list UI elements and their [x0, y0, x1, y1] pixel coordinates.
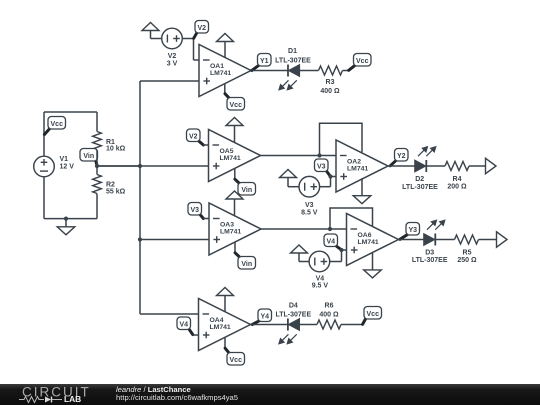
power arrow V2 — [142, 23, 159, 31]
svg-text:V4: V4 — [326, 238, 335, 245]
net flag Vcc R3 — [349, 65, 356, 70]
power arrow V3 — [280, 170, 297, 178]
wire Vin bus — [139, 81, 141, 314]
net flag V4 OA4 — [189, 329, 193, 335]
wire V1 top to R1 top — [43, 112, 45, 156]
svg-text:9.5 V: 9.5 V — [312, 282, 329, 289]
svg-text:R4: R4 — [453, 176, 462, 183]
node ground junction — [64, 217, 68, 221]
op-amp OA4 — [199, 299, 251, 351]
svg-text:V3: V3 — [317, 163, 326, 170]
wire OA1 output — [251, 70, 288, 72]
svg-text:R6: R6 — [325, 303, 334, 310]
svg-text:LM741: LM741 — [358, 239, 379, 246]
op-amp OA3 — [209, 203, 261, 255]
svg-text:Vcc: Vcc — [230, 357, 243, 364]
svg-text:Vin: Vin — [241, 261, 252, 268]
wire OA5 plus input — [97, 165, 209, 167]
diode D1 — [287, 65, 289, 77]
net flag V2 OA5 — [199, 141, 204, 145]
op-amp OA5 — [209, 130, 261, 182]
wire OA4 plus stub — [193, 334, 199, 336]
svg-text:3 V: 3 V — [167, 60, 178, 67]
svg-text:Y4: Y4 — [260, 313, 269, 320]
pointer out Y3 — [497, 232, 508, 247]
net flag Vin OA5 — [234, 169, 236, 180]
op-amp OA1 — [199, 45, 251, 97]
node OA6 plus junction — [339, 248, 343, 252]
svg-text:Vcc: Vcc — [51, 121, 64, 128]
net flag Vcc — [44, 128, 50, 134]
net flag Vin — [96, 160, 98, 166]
svg-text:V3: V3 — [305, 202, 314, 209]
svg-text:Vin: Vin — [241, 187, 252, 194]
svg-text:55 kΩ: 55 kΩ — [106, 188, 126, 195]
ground OA6 — [372, 253, 374, 270]
svg-text:LM741: LM741 — [210, 324, 231, 331]
svg-text:LAB: LAB — [64, 394, 81, 404]
voltage source V1 — [34, 156, 55, 177]
svg-text:Vin: Vin — [83, 153, 94, 160]
svg-text:Vcc: Vcc — [367, 311, 380, 318]
svg-text:Vcc: Vcc — [356, 58, 369, 65]
svg-text:200 Ω: 200 Ω — [447, 184, 467, 191]
svg-text:D1: D1 — [288, 48, 297, 55]
op-amp OA6 — [347, 214, 399, 266]
svg-text:Y1: Y1 — [260, 58, 269, 65]
wire OA6 output — [399, 239, 424, 241]
svg-text:LM741: LM741 — [347, 166, 368, 173]
resistor R2 — [93, 175, 102, 194]
pointer out Y2 — [486, 158, 497, 173]
power arrow V4 — [291, 245, 308, 253]
svg-text:D4: D4 — [289, 303, 298, 310]
power arrow OA4 — [217, 288, 234, 296]
resistor R4 — [445, 162, 469, 171]
wire OA3 output — [261, 228, 347, 230]
node OA6 feedback junction — [328, 227, 332, 231]
wire OA4 minus input — [140, 313, 199, 315]
wire OA2 feedback — [320, 123, 363, 155]
svg-text:D2: D2 — [415, 176, 424, 183]
power arrow OA5 — [226, 118, 243, 126]
svg-text:D3: D3 — [425, 249, 434, 256]
svg-text:Y2: Y2 — [397, 153, 406, 160]
net flag V3 OA2 — [326, 171, 330, 177]
voltage source V2 — [162, 28, 183, 49]
svg-text:10 kΩ: 10 kΩ — [106, 146, 126, 153]
resistor R6 — [317, 320, 341, 329]
node OA2 feedback junction — [317, 153, 321, 157]
net flag V4 OA6 — [336, 246, 341, 250]
node OA2 plus junction — [328, 174, 332, 178]
net flag Y2 — [390, 160, 396, 166]
wire V2 to OA1 minus — [182, 38, 193, 40]
resistor R3 — [319, 66, 343, 75]
power arrow OA1 — [217, 34, 234, 42]
ground OA2 — [361, 178, 363, 196]
wire OA2 output — [388, 165, 415, 167]
svg-text:R3: R3 — [326, 79, 335, 86]
svg-text:400 Ω: 400 Ω — [320, 88, 340, 95]
svg-text:V3: V3 — [190, 207, 199, 214]
op-amp OA2 — [336, 140, 388, 192]
wire D4 to R6 — [299, 324, 317, 326]
wire D3 to R5 — [435, 239, 454, 241]
svg-text:V2: V2 — [168, 53, 177, 60]
net flag Vin OA3 — [234, 242, 236, 253]
svg-text:V2: V2 — [197, 25, 206, 32]
net flag Vcc OA1 — [224, 84, 226, 94]
net flag V3 OA3 — [200, 214, 204, 218]
ground — [65, 219, 67, 227]
svg-text:8.5 V: 8.5 V — [301, 209, 318, 216]
net flag Y4 — [252, 321, 259, 325]
svg-text:LTL-307EE: LTL-307EE — [275, 312, 311, 319]
diode D4 — [287, 319, 289, 331]
wire OA6 plus input — [342, 249, 347, 251]
resistor R1 — [93, 132, 102, 151]
wire R5 to out — [479, 239, 497, 241]
svg-text:Vcc: Vcc — [230, 102, 243, 109]
svg-text:LM741: LM741 — [210, 70, 231, 77]
power arrow OA3 — [226, 191, 243, 199]
svg-text:http://circuitlab.com/c6wafkmp: http://circuitlab.com/c6wafkmps4ya5 — [116, 393, 238, 402]
svg-text:12 V: 12 V — [60, 163, 75, 170]
wire OA5 minus stub — [203, 144, 209, 146]
svg-text:V4: V4 — [316, 275, 325, 282]
wire OA1 plus input — [140, 80, 199, 82]
voltage source V3 — [299, 176, 320, 197]
svg-text:V1: V1 — [60, 156, 69, 163]
wire OA2 plus input — [331, 176, 337, 178]
wire D2 to R4 — [426, 165, 445, 167]
wire OA3 minus stub — [203, 218, 209, 220]
wire R3 to Vcc — [343, 70, 349, 72]
net flag Vcc R6 — [363, 318, 366, 324]
wire D1 to R3 — [300, 70, 319, 72]
wire bottom rail — [96, 194, 98, 219]
svg-text:400 Ω: 400 Ω — [319, 312, 339, 319]
wire R1-R2 junction — [96, 151, 98, 175]
node bus-OA5 — [138, 164, 142, 168]
wire R6 to Vcc — [341, 324, 363, 326]
voltage source V4 — [309, 251, 330, 272]
footer bar — [0, 384, 540, 405]
wire OA4 output — [251, 324, 288, 326]
svg-text:R2: R2 — [106, 181, 115, 188]
net flag Y1 — [252, 65, 259, 70]
net flag V2 — [194, 33, 197, 39]
resistor R5 — [455, 235, 479, 244]
net flag Vcc OA4 — [224, 337, 226, 348]
diode D3 — [434, 234, 436, 246]
svg-text:LM741: LM741 — [220, 155, 241, 162]
svg-text:R5: R5 — [463, 249, 472, 256]
diode D2 — [425, 160, 427, 172]
wire OA5 output — [261, 155, 337, 157]
wire OA3 plus input — [140, 239, 209, 241]
svg-text:LTL-307EE: LTL-307EE — [402, 184, 438, 191]
svg-text:Y3: Y3 — [408, 227, 417, 234]
svg-text:250 Ω: 250 Ω — [457, 257, 477, 264]
svg-text:LTL-307EE: LTL-307EE — [412, 257, 448, 264]
net flag Y3 — [400, 234, 408, 239]
node Vin junction — [95, 164, 99, 168]
node bus-OA3 — [138, 237, 142, 241]
wire OA6 feedback — [330, 208, 373, 229]
svg-text:V2: V2 — [189, 133, 198, 140]
wire R4 to out — [469, 165, 486, 167]
svg-text:LTL-307EE: LTL-307EE — [275, 58, 311, 65]
svg-text:LM741: LM741 — [220, 229, 241, 236]
svg-text:V4: V4 — [179, 321, 188, 328]
